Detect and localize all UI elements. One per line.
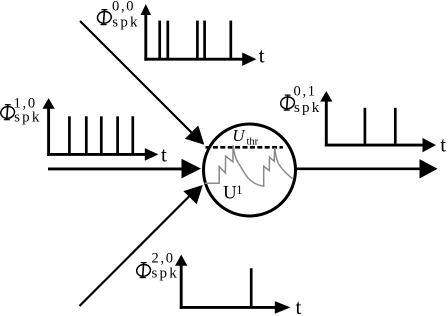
wire: output axon with arrowhead [296,159,438,178]
wire: input axon from (0,0) into neuron, with arrowhead [80,21,204,145]
svg-text:t: t [296,295,302,316]
label Phi_spk^0,0 [96,0,139,31]
svg-text:0,1: 0,1 [294,84,317,100]
svg-text:0,0: 0,0 [112,0,135,15]
spike plot (2,0): vertical axis [175,255,187,309]
svg-text:U: U [232,126,246,145]
spikes of train (0,0) [160,21,231,59]
svg-text:1: 1 [236,183,242,197]
svg-text:spk: spk [152,266,179,282]
spike plot (0,1): vertical axis [320,91,332,147]
label Phi_spk^1,0 [0,96,42,126]
wire: input axon from (2,0) into neuron, with arrowhead [80,185,203,306]
svg-text:t: t [161,143,167,167]
spike plot (1,0): horizontal axis with t [47,143,167,167]
membrane potential trace U1 [205,145,293,186]
svg-text:2,0: 2,0 [152,251,175,267]
svg-text:U: U [223,183,237,204]
spike plot (2,0): horizontal axis with t [180,295,302,316]
spike plot (0,0): vertical axis [141,4,151,61]
threshold dashed line [206,146,284,149]
spike plot (0,0): horizontal axis with t [144,43,264,67]
svg-text:spk: spk [112,15,139,31]
spikes of train (1,0) [69,116,132,153]
svg-text:spk: spk [294,100,321,116]
label Phi_spk^0,1 [280,84,322,117]
svg-text:t: t [440,133,446,157]
spikes of train (0,1) [365,108,395,144]
wire: input axon from (1,0) into neuron, with arrowhead [48,159,201,179]
label U_thr [232,126,258,148]
svg-text:spk: spk [14,110,41,126]
spike plot (0,1): horizontal axis with t [325,133,446,157]
label U1 [223,183,243,204]
spike of train (2,0) [250,268,253,306]
neuron body (soma) [204,124,296,216]
label Phi_spk^2,0 [136,251,179,282]
svg-text:t: t [259,43,265,67]
spike plot (1,0): vertical axis [42,98,54,156]
svg-text:thr: thr [247,137,259,148]
